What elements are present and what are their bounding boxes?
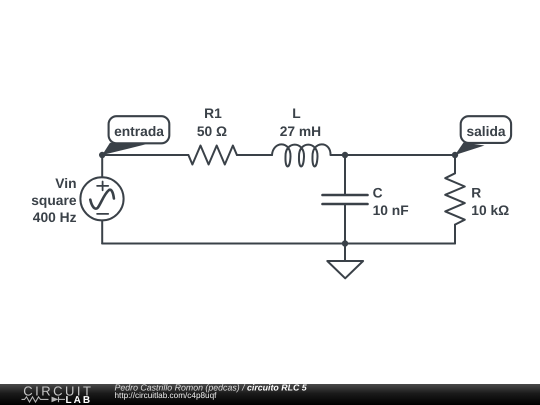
svg-text:C: C (373, 185, 383, 200)
svg-text:10 kΩ: 10 kΩ (471, 203, 509, 218)
svg-text:salida: salida (466, 124, 505, 139)
svg-text:http://circuitlab.com/c4p8uqf: http://circuitlab.com/c4p8uqf (115, 391, 218, 400)
svg-text:entrada: entrada (114, 124, 164, 139)
svg-text:Vin: Vin (55, 176, 76, 191)
svg-text:R: R (471, 185, 481, 200)
svg-text:50 Ω: 50 Ω (197, 124, 227, 139)
svg-text:R1: R1 (204, 106, 222, 121)
svg-text:square: square (31, 193, 77, 208)
svg-text:400 Hz: 400 Hz (33, 210, 77, 225)
svg-text:27 mH: 27 mH (280, 124, 321, 139)
svg-text:LAB: LAB (66, 395, 93, 405)
svg-text:L: L (292, 106, 300, 121)
svg-text:10 nF: 10 nF (373, 203, 409, 218)
